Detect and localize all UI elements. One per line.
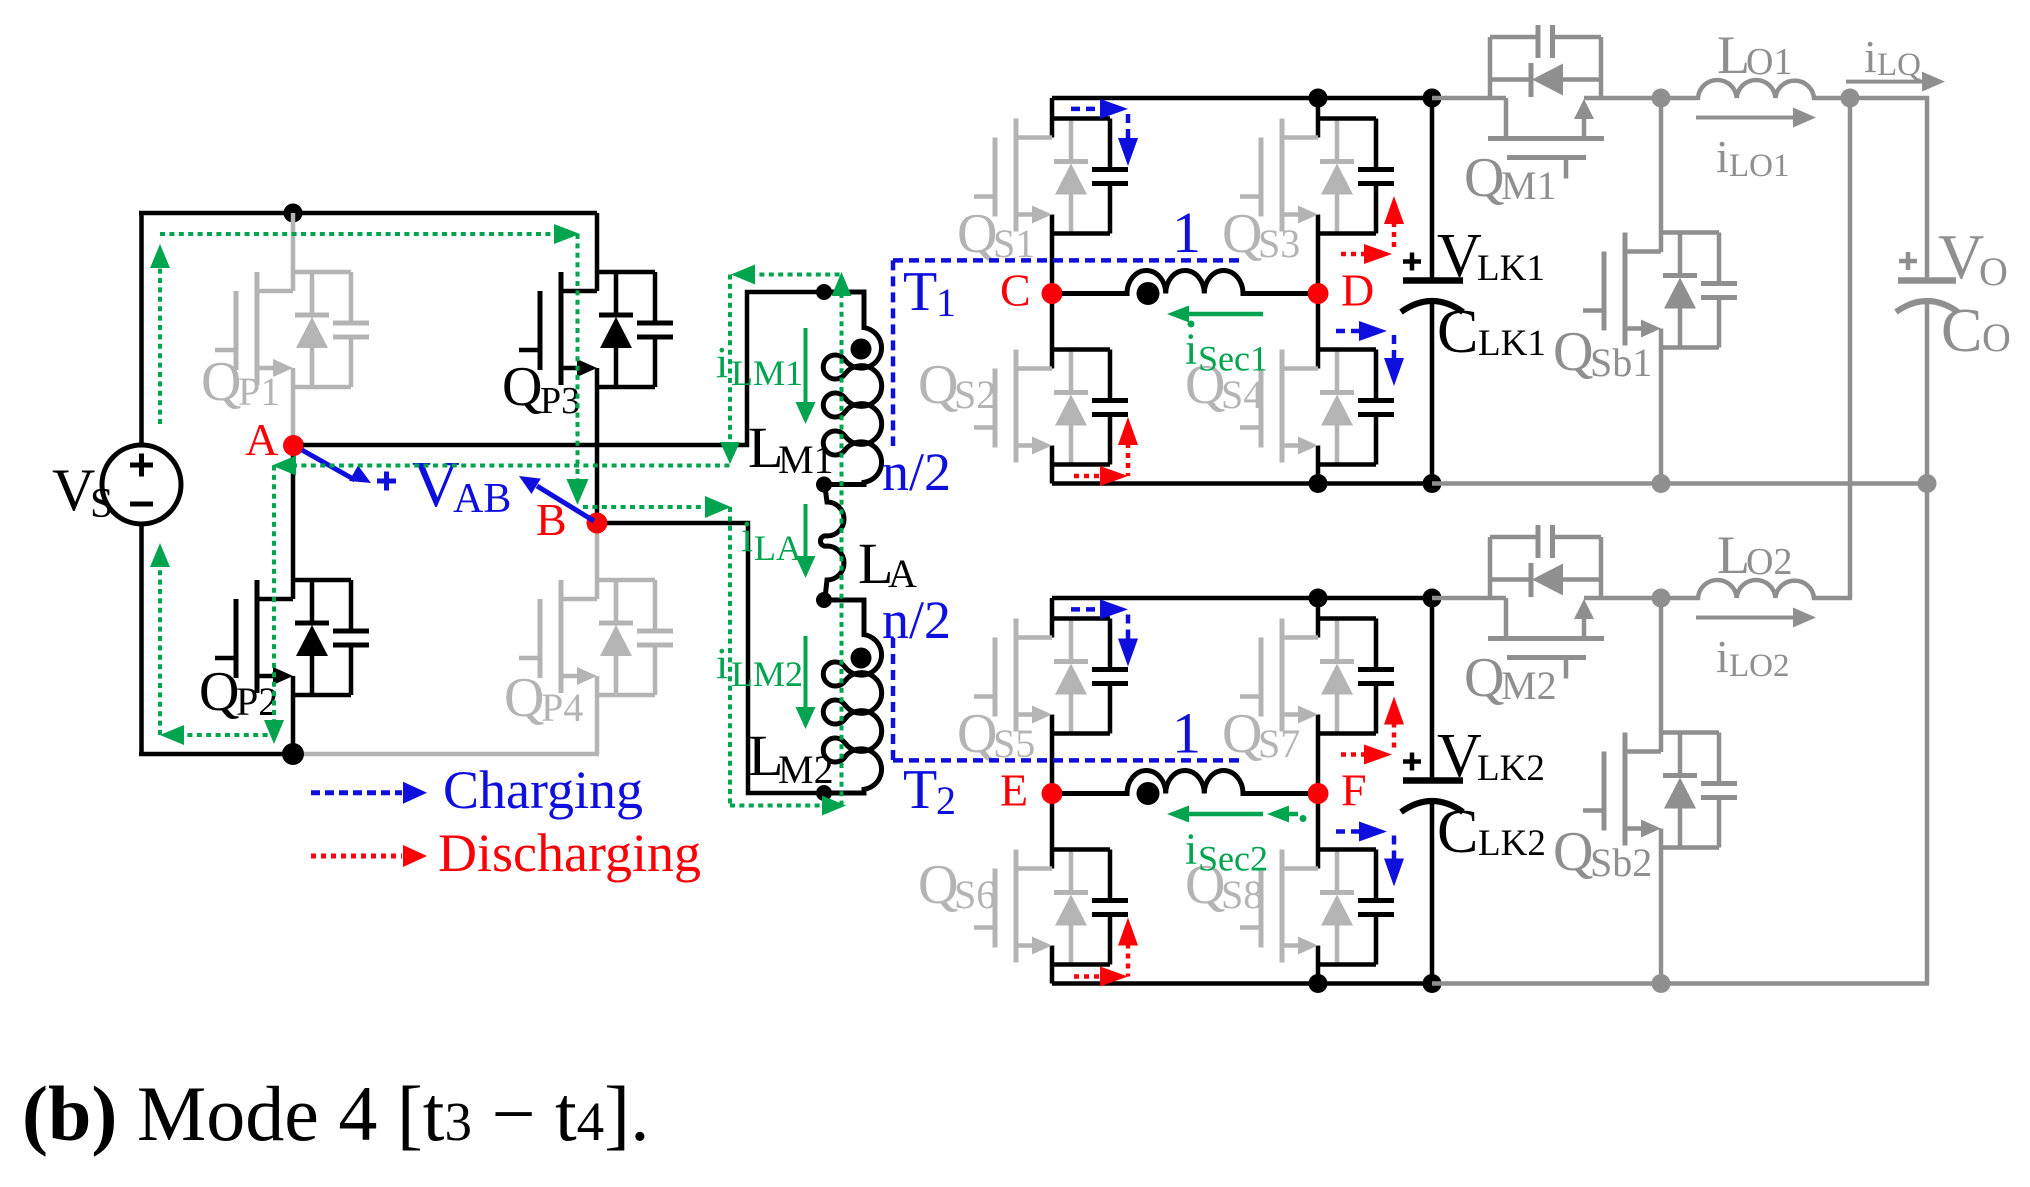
svg-text:i: i [1185, 325, 1197, 374]
svg-text:Q: Q [201, 351, 241, 413]
svg-text:Q: Q [1553, 321, 1593, 383]
svg-text:i: i [716, 639, 728, 688]
svg-text:LK2: LK2 [1477, 748, 1545, 789]
wire: right leg segments bridge T2 [1316, 598, 1321, 638]
capacitor CO [1898, 277, 1956, 284]
blue coupling line T1 horizontal [893, 258, 1244, 263]
wire: rail from clamp to QM2 drain [1432, 596, 1506, 601]
svg-text:S3: S3 [1258, 221, 1300, 266]
transistor QP3 [519, 272, 673, 387]
wire: top rail secondary bridge T2 [1052, 596, 1434, 601]
wire: QP2 drain from node A [291, 446, 296, 599]
svg-text:D: D [1341, 265, 1374, 316]
green path: VS left vertical upper segment [158, 263, 162, 424]
svg-text:LA: LA [754, 528, 802, 568]
green path: top horizontal to QP3 [160, 232, 557, 236]
svg-text:Sb1: Sb1 [1590, 340, 1652, 385]
junction dot bottom rail [282, 743, 304, 765]
wire: gray rail right of LO1 node [1852, 96, 1929, 101]
transistor QP1 [215, 272, 369, 387]
red arrow at QS3 cap [1341, 252, 1366, 257]
wire: QP4 source to bottom rail [595, 676, 600, 754]
svg-text:1: 1 [1172, 200, 1201, 265]
gray arrow iLO1 [1696, 116, 1793, 120]
green path: bottom horizontal to VS [178, 733, 274, 737]
svg-text:(b) Mode 4 [t3 − t4].: (b) Mode 4 [t3 − t4]. [22, 1070, 650, 1157]
svg-text:LK1: LK1 [1478, 323, 1546, 364]
wire: output bus right column [1925, 96, 1930, 281]
arrow VAB from B [537, 486, 594, 521]
phase dot secondary T1 [1137, 282, 1160, 305]
green arrow iSec2 [1186, 812, 1263, 817]
green path: down through QP2 [272, 466, 276, 724]
node B [587, 513, 608, 534]
svg-text:i: i [1716, 131, 1729, 182]
svg-text:S8: S8 [1221, 872, 1263, 917]
wire: top rail primary [139, 211, 597, 216]
svg-text:S2: S2 [954, 372, 996, 417]
svg-text:i: i [1864, 31, 1877, 82]
transistor QSb2 [1583, 733, 1737, 848]
svg-text:C: C [1437, 298, 1478, 366]
blue coupling line T2 vertical [891, 638, 896, 760]
terminal dot LA bottom [816, 592, 832, 608]
wire: QP3 source to node B [595, 368, 600, 523]
terminal dot LM1 bottom [816, 477, 832, 493]
inductor secondary winding T1 [1062, 270, 1308, 293]
voltage source VS [102, 445, 181, 524]
svg-text:i: i [716, 338, 728, 387]
svg-text:1: 1 [936, 280, 956, 325]
transistor QS6 [974, 850, 1128, 965]
transistor QSb1 [1583, 233, 1737, 348]
green path: horizontal to node A [292, 464, 730, 468]
wire: bottom rail primary black part [139, 752, 293, 757]
svg-text:Discharging: Discharging [438, 823, 701, 883]
transistor QS7 [1240, 619, 1394, 734]
red arrow at QS7 cap [1341, 752, 1366, 757]
junction dot QSb2 source [1652, 974, 1671, 993]
blue arrow at QS8 cap [1336, 829, 1361, 834]
green arrow iSec1 [1186, 312, 1263, 317]
blue arrow at QS1 cap [1071, 107, 1102, 112]
svg-text:M2: M2 [778, 747, 834, 792]
svg-text:AB: AB [453, 476, 511, 522]
svg-text:Q: Q [957, 203, 997, 265]
svg-text:O: O [1982, 315, 2011, 360]
junction dot LO node [1652, 89, 1671, 108]
svg-text:C: C [1941, 297, 1982, 365]
wire: bottom rail secondary bridge T1 [1052, 481, 1434, 486]
svg-text:V: V [1437, 722, 1482, 790]
gray arrow iLO2 [1696, 616, 1793, 620]
green path: down through QP3 [576, 234, 580, 486]
wire: gray bottom rail [1432, 981, 1929, 986]
junction dot [1423, 589, 1442, 608]
red arrow at QS6 cap [1074, 974, 1102, 979]
svg-text:Sec1: Sec1 [1198, 339, 1268, 379]
blue coupling line T1 vertical [891, 260, 896, 446]
wire: QSb2 drain [1659, 598, 1664, 752]
arrow VAB from A [302, 450, 355, 480]
wire: QP1 drain [291, 213, 296, 291]
legend discharging arrow [311, 854, 402, 859]
wire: rail QM2 source to LO node [1584, 596, 1666, 601]
junction dot [1309, 89, 1328, 108]
svg-text:C: C [1000, 265, 1031, 316]
svg-text:Sb2: Sb2 [1590, 840, 1652, 885]
green path: winding loop left vertical upper [728, 275, 732, 447]
svg-text:n/2: n/2 [882, 590, 951, 650]
svg-text:Q: Q [199, 661, 239, 723]
svg-text:M1: M1 [1501, 163, 1557, 208]
transistor QS2 [974, 350, 1128, 465]
svg-text:Q: Q [1222, 203, 1262, 265]
plus sign VLK1 [1403, 259, 1421, 264]
svg-text:LQ: LQ [1877, 47, 1921, 83]
svg-text:Q: Q [502, 356, 542, 418]
inductor LO1 [1666, 80, 1852, 98]
phase dot LM2 [851, 648, 872, 669]
inductor LM1 winding [822, 292, 882, 485]
svg-text:Q: Q [1464, 147, 1504, 209]
wire: QSb1 source [1659, 329, 1664, 484]
junction dot LO node [1652, 589, 1671, 608]
svg-text:LM2: LM2 [731, 654, 803, 694]
svg-text:i: i [1716, 631, 1729, 682]
inductor LO2 [1666, 580, 1852, 598]
wire: QSb2 source [1659, 829, 1664, 984]
red arrow at QS2 cap [1074, 474, 1102, 479]
transistor QS8 [1240, 850, 1394, 965]
transistor QM2 [1488, 525, 1604, 679]
junction dot top rail [284, 204, 303, 223]
wire: rail QM1 source to LO node [1584, 96, 1666, 101]
svg-text:Sec2: Sec2 [1198, 839, 1268, 879]
svg-text:E: E [1000, 765, 1028, 816]
node C [1042, 283, 1063, 304]
svg-text:1: 1 [1172, 701, 1201, 766]
svg-text:Q: Q [1222, 703, 1262, 765]
wire: left rail bottom (VS- to bottom rail) [139, 523, 144, 754]
blue arrow at QS5 cap [1071, 607, 1102, 612]
svg-text:O1: O1 [1746, 41, 1792, 83]
wire: QP4 drain from node B [595, 526, 600, 599]
wire: bottom rail secondary bridge T2 [1052, 981, 1434, 986]
phase dot secondary T2 [1137, 782, 1160, 805]
wire: column LO1 node to LO2 rail [1848, 98, 1853, 598]
green path: winding loop right vertical [840, 293, 844, 806]
terminal dot LM1 top [816, 284, 832, 300]
svg-text:S7: S7 [1258, 721, 1300, 766]
wire: node A to LM1 top [303, 292, 822, 445]
svg-text:P4: P4 [541, 685, 583, 730]
junction dot [1309, 974, 1328, 993]
green arrow iLM1 [804, 328, 808, 406]
junction dot [1309, 474, 1328, 493]
svg-text:C: C [1437, 798, 1478, 866]
svg-text:LK2: LK2 [1478, 823, 1546, 864]
svg-text:V: V [1437, 222, 1482, 290]
junction dot output bus [1918, 474, 1937, 493]
phase dot LM1 [851, 339, 872, 360]
node D [1308, 283, 1329, 304]
svg-text:Q: Q [1464, 647, 1504, 709]
junction dot [1423, 974, 1442, 993]
wire: right leg segments bridge T1 [1316, 98, 1321, 138]
svg-text:Q: Q [918, 854, 958, 916]
wire: QP2 source to bottom rail [291, 676, 296, 754]
svg-text:P2: P2 [236, 679, 278, 724]
node E [1042, 783, 1063, 804]
wire: gray bottom rail [1432, 481, 1929, 486]
wire: node B to LM2 bottom [607, 523, 822, 793]
wire: bottom rail primary gray part [293, 752, 599, 757]
svg-text:A: A [245, 414, 278, 465]
svg-text:F: F [1341, 765, 1367, 816]
svg-text:LM1: LM1 [731, 353, 803, 393]
svg-text:2: 2 [936, 778, 956, 823]
svg-text:P1: P1 [238, 369, 280, 414]
junction dot iLQ node [1841, 89, 1860, 108]
inductor secondary winding T2 [1062, 770, 1308, 793]
svg-text:LO1: LO1 [1729, 148, 1790, 184]
svg-text:V: V [52, 457, 95, 523]
transistor QS4 [1240, 350, 1394, 465]
green path: winding loop bottom horizontal [730, 804, 826, 808]
green path: B to winding loop horizontal [583, 505, 711, 509]
junction dot [1423, 474, 1442, 493]
terminal dot LM2 bottom [816, 785, 832, 801]
svg-text:LO2: LO2 [1729, 648, 1790, 684]
svg-text:S6: S6 [954, 872, 996, 917]
green path: VS left vertical lower segment [158, 562, 162, 735]
svg-text:Charging: Charging [443, 760, 643, 820]
inductor LA winding [820, 487, 844, 598]
inductor LM2 winding [822, 600, 882, 793]
green path: winding loop top horizontal [750, 273, 843, 277]
svg-text:S: S [90, 481, 113, 527]
transistor QS1 [974, 119, 1128, 234]
svg-text:i: i [1185, 825, 1197, 874]
capacitor CLK2 [1430, 598, 1435, 781]
svg-text:Q: Q [918, 354, 958, 416]
transistor QP4 [519, 580, 673, 695]
wire: rail from clamp to QM1 drain [1432, 96, 1506, 101]
svg-text:M2: M2 [1501, 663, 1557, 708]
svg-text:T: T [903, 759, 937, 821]
legend charging arrow [311, 790, 402, 795]
svg-text:O: O [1979, 249, 2008, 294]
wire: QP3 drain [595, 213, 600, 291]
svg-text:M1: M1 [778, 437, 834, 482]
green path: winding loop left vertical lower [728, 507, 732, 806]
wire: QSb1 drain [1659, 98, 1664, 252]
svg-text:Q: Q [1553, 821, 1593, 883]
svg-text:Q: Q [504, 667, 544, 729]
plus sign VLK2 [1403, 759, 1421, 764]
plus sign VO [1899, 259, 1917, 264]
svg-text:T: T [903, 261, 937, 323]
svg-text:n/2: n/2 [882, 442, 951, 502]
node F [1308, 783, 1329, 804]
svg-text:V: V [1938, 221, 1984, 292]
svg-text:LK1: LK1 [1477, 248, 1545, 289]
wire: left leg segments bridge T2 [1050, 598, 1055, 638]
wire: left rail top (VS+ to top rail) [139, 213, 144, 446]
svg-text:Q: Q [957, 703, 997, 765]
blue arrow at QS4 cap [1336, 329, 1361, 334]
junction dot [1309, 589, 1328, 608]
svg-text:S4: S4 [1221, 372, 1263, 417]
junction dot [1423, 89, 1442, 108]
wire: top rail secondary bridge T1 [1052, 96, 1434, 101]
capacitor CLK1 [1430, 98, 1435, 281]
transistor QM1 [1488, 25, 1604, 179]
label +VAB [377, 479, 396, 484]
transistor QS3 [1240, 119, 1394, 234]
wire: left leg segments bridge T1 [1050, 98, 1055, 138]
wire: QP1 source to node A [291, 368, 296, 441]
svg-text:i: i [741, 512, 753, 561]
gray arrow iLQ [1846, 80, 1922, 84]
junction dot QSb1 source [1652, 474, 1671, 493]
transistor QP2 [215, 580, 369, 695]
svg-text:P3: P3 [540, 380, 580, 422]
blue coupling line T2 horizontal [893, 758, 1244, 763]
node A [283, 435, 304, 456]
transistor QS5 [974, 619, 1128, 734]
green arrow iLA [804, 504, 808, 560]
green arrow iLM2 [804, 636, 808, 711]
svg-text:O2: O2 [1746, 541, 1792, 583]
